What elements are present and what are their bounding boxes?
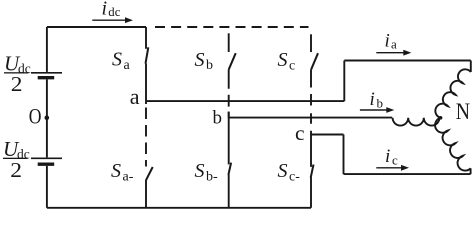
svg-text:b-: b- [206, 169, 218, 184]
switch S_c- blade [311, 165, 314, 178]
svg-text:i: i [102, 0, 108, 20]
battery cell lower: short thick plate [38, 162, 55, 165]
wire phase a top [344, 60, 471, 62]
svg-text:S: S [112, 49, 122, 71]
svg-text:i: i [385, 146, 390, 167]
svg-text:S: S [278, 49, 288, 71]
svg-text:c: c [289, 58, 295, 73]
svg-text:2: 2 [11, 72, 23, 96]
switch S_b upper contact stub [228, 33, 230, 52]
wire phase c corner rise [470, 168, 472, 174]
svg-text:c: c [392, 153, 398, 168]
svg-text:b: b [206, 58, 213, 73]
node N junction dot [439, 116, 443, 120]
inductor winding c [435, 118, 471, 171]
arrowhead i_a [403, 50, 411, 56]
svg-text:dc: dc [108, 5, 120, 19]
arrowhead i_b [386, 107, 394, 113]
wire S_c to node c (dashed segments) [310, 70, 312, 135]
wire node b down to S_b- [228, 112, 230, 165]
arrow i_c shaft [376, 167, 403, 169]
svg-text:a: a [124, 58, 131, 73]
battery cell upper: long plate [31, 72, 62, 74]
svg-text:S: S [195, 160, 205, 182]
wire top rail dashed [155, 26, 309, 28]
arrowhead i_c [401, 165, 409, 171]
wire left rail lower [46, 166, 48, 208]
wire node a dashed down to S_a- [145, 101, 147, 166]
svg-text:i: i [385, 30, 390, 51]
wire node a to phase a riser [146, 100, 344, 102]
svg-text:a-: a- [123, 169, 134, 184]
wire S_c- to bottom rail [310, 178, 312, 208]
inductor winding a [435, 69, 470, 117]
wire node b to winding b [229, 117, 393, 119]
arrowhead i_dc [125, 17, 133, 23]
switch S_a blade [146, 47, 149, 63]
wire top rail solid [47, 26, 146, 28]
wire phase c bottom [344, 173, 471, 175]
svg-text:c: c [295, 121, 305, 145]
arrow i_a shaft [376, 52, 405, 54]
svg-text:N: N [456, 98, 470, 124]
node O dot [45, 115, 50, 120]
battery cell upper: short thick plate [38, 76, 55, 79]
switch S_c blade [311, 53, 318, 70]
wire left rail upper [46, 27, 48, 72]
inductor winding b [393, 118, 440, 126]
svg-text:2: 2 [10, 158, 22, 182]
wire left rail middle [46, 79, 48, 157]
wire node c down to S_c- [310, 135, 312, 167]
wire phase a corner drop [470, 61, 472, 73]
svg-text:a: a [391, 36, 397, 51]
switch S_b blade [229, 53, 236, 70]
svg-text:O: O [29, 105, 42, 129]
wire S_b to node b (dashed segments) [228, 70, 230, 118]
fraction bar U_dc/2 lower [3, 158, 28, 159]
svg-text:b: b [377, 95, 384, 110]
wire S_a- to bottom rail [145, 180, 147, 208]
wire phase c drop [343, 135, 345, 175]
switch S_a upper contact wire [145, 27, 147, 49]
svg-text:a: a [130, 84, 140, 109]
svg-text:i: i [370, 89, 375, 110]
wire node c horizontal [311, 134, 344, 136]
svg-text:S: S [111, 160, 121, 182]
switch S_c upper contact stub [310, 34, 312, 52]
wire bottom rail [47, 207, 311, 209]
wire S_a to node a [145, 64, 147, 102]
svg-text:b: b [213, 108, 223, 129]
switch S_a- blade [146, 167, 153, 180]
arrow i_dc shaft [92, 19, 126, 21]
switch S_b- blade [228, 163, 231, 175]
arrow i_b shaft [360, 109, 389, 111]
svg-text:c-: c- [289, 169, 300, 184]
battery cell lower: long plate [31, 157, 62, 159]
svg-text:S: S [195, 49, 205, 71]
fraction bar U_dc/2 upper [4, 72, 29, 73]
wire phase a riser [343, 61, 345, 102]
wire S_b- to bottom rail [228, 175, 230, 208]
svg-text:S: S [278, 160, 288, 182]
